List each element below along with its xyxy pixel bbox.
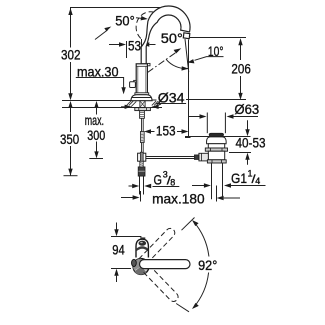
handle plan view bbox=[136, 237, 148, 257]
drain flange body bbox=[207, 137, 227, 144]
body top cap nub bbox=[148, 63, 150, 65]
counter deck lines bbox=[62, 100, 246, 108]
svg-text:53: 53 bbox=[128, 38, 141, 54]
drain clamp nut bbox=[205, 148, 227, 151]
wire outlet height extension line bbox=[190, 37, 246, 39]
dashed swivel spout lower bbox=[142, 265, 180, 304]
dimension Ø63 bbox=[188, 101, 259, 119]
dimension 94 bbox=[111, 223, 131, 283]
label G3/8 with underline and arrows bbox=[129, 170, 180, 189]
dimension 40-53 bbox=[229, 120, 266, 165]
threaded shank between deck lines bbox=[140, 101, 145, 108]
mounting nut bbox=[135, 108, 151, 111]
svg-text:Ø63: Ø63 bbox=[234, 101, 259, 117]
deck section hatching right bbox=[152, 101, 161, 105]
threaded rod below tee bbox=[140, 161, 143, 167]
deck section hatching left bbox=[127, 101, 137, 107]
svg-text:206: 206 bbox=[231, 60, 251, 76]
svg-text:40-53: 40-53 bbox=[236, 135, 266, 151]
side knob on body bbox=[130, 80, 137, 87]
svg-text:350: 350 bbox=[60, 131, 79, 147]
G3/8 connection nut bbox=[138, 167, 145, 176]
svg-text:50°: 50° bbox=[161, 30, 183, 46]
label G1-1/4 with underline and arrows bbox=[192, 169, 266, 188]
svg-text:50°: 50° bbox=[115, 12, 134, 28]
dimension 302 bbox=[61, 8, 81, 100]
dimension max.300 bbox=[85, 101, 106, 159]
swivel extension line lower bbox=[176, 304, 189, 312]
basin surface line at drain bbox=[185, 136, 251, 138]
label Ø34 with underline leader and arrows bbox=[121, 90, 186, 109]
drain body lower bbox=[208, 151, 224, 160]
label 10-deg with leader bbox=[187, 43, 223, 63]
svg-text:302: 302 bbox=[61, 47, 81, 63]
base escutcheon plate bbox=[131, 93, 152, 101]
aerator outlet block bbox=[183, 33, 190, 39]
drain lower nut band bbox=[207, 160, 226, 163]
svg-text:max.180: max.180 bbox=[152, 191, 205, 207]
svg-text:300: 300 bbox=[87, 127, 105, 143]
dimension 153 bbox=[144, 122, 191, 138]
supply pipe below nut bbox=[140, 176, 144, 194]
swivel arc 92 degrees bbox=[192, 220, 209, 309]
dimension 53 bbox=[109, 38, 156, 58]
dashed swivel spout upper bbox=[139, 227, 177, 266]
svg-text:94: 94 bbox=[112, 241, 125, 257]
svg-text:92°: 92° bbox=[198, 257, 217, 273]
swivel extension line upper bbox=[182, 218, 195, 231]
horizontal pop-up linkage rod bbox=[146, 157, 199, 159]
dimension 350 bbox=[60, 101, 79, 176]
vertical reference / extension line from outlet bbox=[188, 40, 190, 138]
dimension 206 bbox=[231, 38, 251, 100]
drain plug stem bbox=[207, 113, 225, 134]
drain side connector bbox=[194, 153, 208, 161]
svg-text:G: G bbox=[154, 171, 162, 187]
svg-text:G1: G1 bbox=[231, 170, 247, 186]
water stream line tilted 10 degrees bbox=[185, 39, 189, 72]
solid spout plan view bbox=[140, 260, 191, 269]
drain body upper bbox=[208, 144, 224, 148]
svg-text:max.: max. bbox=[85, 112, 104, 128]
pop-up rod tee junction bbox=[138, 152, 146, 162]
pop-up lift rod below deck bbox=[140, 111, 145, 153]
wire spout-top extension line bbox=[70, 7, 167, 9]
svg-text:153: 153 bbox=[156, 122, 176, 138]
drain tailpipe bbox=[212, 163, 223, 199]
body circle plan view bbox=[132, 259, 149, 275]
label max.30 with leader bbox=[76, 64, 126, 95]
faucet body bbox=[136, 64, 147, 95]
faucet spout gooseneck bbox=[141, 6, 190, 64]
label 50-deg upper-left with leader arrow bbox=[95, 12, 148, 39]
handle extension line to 94 bbox=[123, 237, 141, 240]
handle axis dash-dot line at 50 degrees bbox=[148, 48, 182, 72]
arc arrow for 50-deg angle bbox=[166, 59, 189, 70]
drain pop-up plug cap bbox=[209, 133, 223, 136]
dashed swivelled spout arc (side view) bbox=[136, 12, 158, 39]
dimension max.180 bbox=[121, 186, 240, 207]
